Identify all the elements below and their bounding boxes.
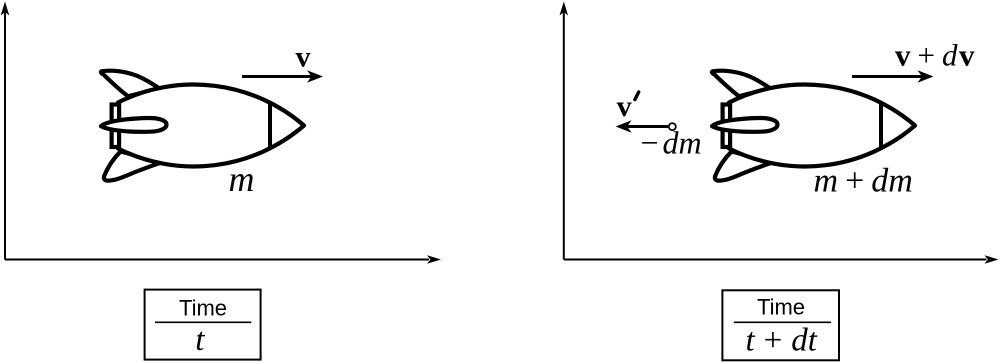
rocket (left): nose cone divider — [268, 103, 272, 148]
svg-text:v: v — [296, 41, 311, 74]
rocket (right): top fin — [712, 71, 771, 97]
time box (right): fraction bar — [734, 321, 831, 323]
rocket (right): nose cone divider — [879, 103, 883, 148]
rocket (left): center fin — [101, 118, 167, 132]
svg-text:m+dm: m+dm — [814, 163, 913, 200]
svg-text:v: v — [617, 90, 632, 123]
rocket (right): center fin — [712, 118, 778, 132]
rocket (right): body — [729, 85, 915, 167]
right vertical axis — [560, 2, 569, 260]
svg-text:Time: Time — [179, 296, 227, 321]
time box (left): frame — [145, 290, 261, 360]
exhaust arrow v' (right, pointing left) — [616, 120, 668, 133]
rocket (left): body — [118, 85, 304, 167]
left vertical axis — [1, 2, 10, 260]
velocity arrow v+dv (right) — [852, 70, 934, 83]
time box (right): frame — [722, 290, 839, 360]
velocity arrow v (left) — [242, 70, 323, 83]
right horizontal axis — [564, 255, 999, 264]
svg-text:−dm: −dm — [641, 125, 702, 161]
svg-text:m: m — [229, 159, 255, 199]
left horizontal axis — [5, 255, 441, 264]
ejected mass particle (small circle) — [669, 123, 676, 130]
time box (left): fraction bar — [155, 321, 251, 323]
rocket (right): tail plate — [723, 105, 731, 148]
rocket (left): tail plate — [112, 105, 120, 148]
rocket (left): bottom fin — [104, 152, 160, 181]
label v prime tick — [635, 92, 639, 100]
rocket (right): bottom fin — [715, 152, 771, 181]
rocket (left): top fin — [101, 71, 160, 97]
svg-text:t: t — [195, 322, 205, 358]
svg-text:Time: Time — [757, 295, 805, 320]
